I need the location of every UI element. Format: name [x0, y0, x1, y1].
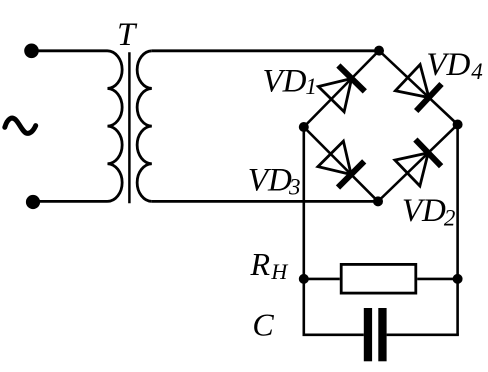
wire: capacitor C right plate to right rail bottom	[387, 334, 458, 335]
wire: secondary bottom to bridge bottom node (crosses left rail)	[152, 200, 378, 203]
wire: bridge branch bottom node to right node	[378, 125, 458, 202]
capacitor C left plate	[364, 308, 372, 361]
wire: bridge branch top node to right node	[379, 51, 458, 125]
transformer T primary winding	[108, 51, 123, 202]
diode VD1 (left node to top node)	[318, 66, 364, 112]
svg-text:2: 2	[444, 205, 456, 230]
svg-text:VD: VD	[426, 47, 470, 83]
wire: bottom loop left rail to capacitor C left plate	[304, 334, 364, 335]
transformer core	[128, 52, 131, 203]
svg-text:4: 4	[471, 59, 483, 84]
svg-text:R: R	[250, 246, 271, 282]
capacitor C right plate	[378, 308, 386, 361]
AC input terminal (top)	[24, 44, 39, 59]
svg-text:VD: VD	[263, 64, 307, 100]
diode VD4 (top node to right node)	[395, 65, 441, 112]
resistor RH body	[341, 264, 416, 293]
node: bridge right junction	[453, 120, 463, 130]
label VD3	[248, 162, 301, 199]
wire: right rail from bridge right node down to capacitor loop	[456, 125, 459, 335]
diode VD2 (bottom node to right node)	[395, 140, 441, 186]
diode VD3 (left node to bottom node)	[318, 141, 364, 187]
wire: left rail to resistor RH	[304, 278, 340, 281]
svg-text:H: H	[270, 259, 288, 284]
AC source tilde symbol	[5, 118, 36, 133]
wire: AC bottom lead from terminal to transformer primary	[33, 200, 108, 203]
svg-text:T: T	[117, 17, 138, 53]
transformer T secondary winding	[137, 51, 152, 202]
label VD1	[263, 64, 317, 100]
node: left rail / RH junction	[299, 274, 309, 284]
node: bridge top junction	[374, 46, 384, 56]
wire: resistor RH to right rail	[417, 278, 457, 281]
svg-text:VD: VD	[248, 162, 292, 198]
svg-text:1: 1	[305, 74, 317, 99]
node: right rail / RH junction	[453, 274, 463, 284]
svg-text:3: 3	[288, 175, 301, 200]
wire: secondary top to bridge top node	[152, 49, 379, 52]
label RH (load resistor)	[250, 246, 289, 284]
label VD4	[426, 47, 482, 84]
node: bridge left junction	[299, 122, 309, 132]
node: bridge bottom junction	[373, 196, 383, 206]
label VD2	[402, 193, 456, 230]
svg-text:VD: VD	[402, 193, 446, 229]
wire: AC top lead from terminal to transformer primary	[31, 49, 108, 52]
wire: bridge branch left node to top node	[304, 51, 379, 127]
wire: bridge branch left node to bottom node	[304, 127, 378, 201]
svg-text:C: C	[252, 306, 274, 342]
AC input terminal (bottom)	[26, 195, 40, 209]
wire: left rail from bridge left node down to capacitor loop	[302, 127, 305, 335]
